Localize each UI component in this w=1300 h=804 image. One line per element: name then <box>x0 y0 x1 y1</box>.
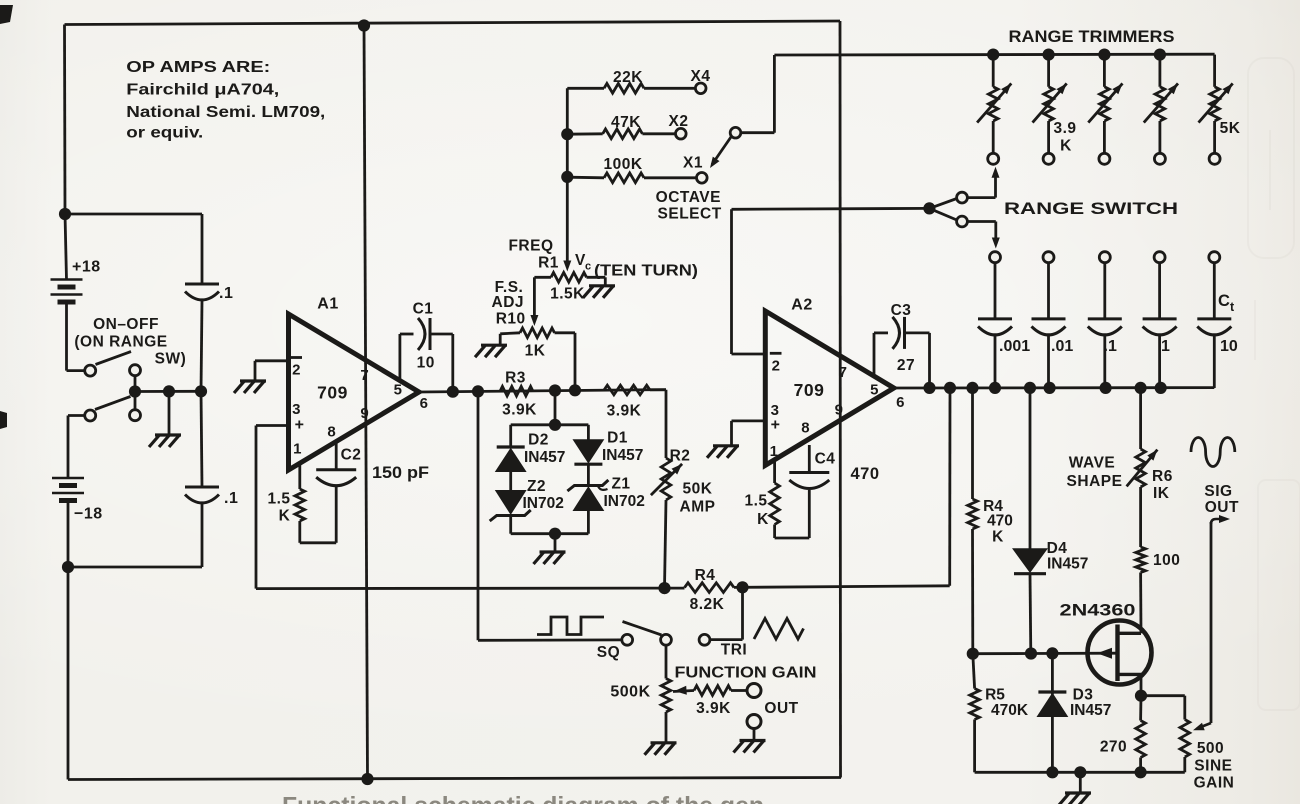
svg-text:RANGE SWITCH: RANGE SWITCH <box>1004 200 1178 218</box>
svg-text:5: 5 <box>870 382 879 399</box>
svg-text:1: 1 <box>770 443 779 460</box>
svg-text:470K: 470K <box>991 702 1029 719</box>
svg-text:(TEN TURN): (TEN TURN) <box>594 263 698 280</box>
svg-text:D4: D4 <box>1047 540 1068 557</box>
svg-text:D2: D2 <box>528 432 549 449</box>
svg-text:R10: R10 <box>496 311 526 328</box>
svg-text:1.5K: 1.5K <box>550 286 585 303</box>
svg-text:50K: 50K <box>683 481 713 498</box>
svg-text:SINE: SINE <box>1194 758 1232 775</box>
svg-text:R3: R3 <box>505 370 526 387</box>
svg-text:8: 8 <box>327 424 336 441</box>
svg-text:Z2: Z2 <box>527 478 546 495</box>
svg-text:IK: IK <box>1153 485 1170 502</box>
svg-text:National Semi. LM709,: National Semi. LM709, <box>126 104 325 121</box>
svg-text:47K: 47K <box>611 114 641 131</box>
svg-text:6: 6 <box>420 395 429 412</box>
svg-text:−18: −18 <box>74 506 103 523</box>
svg-text:K: K <box>757 511 769 528</box>
svg-text:3.9: 3.9 <box>1053 120 1076 137</box>
svg-text:FREQ: FREQ <box>508 238 553 255</box>
svg-text:t: t <box>1230 300 1235 314</box>
svg-text:100: 100 <box>1153 552 1180 569</box>
svg-text:+18: +18 <box>72 259 101 276</box>
svg-text:.1: .1 <box>1104 338 1117 355</box>
svg-text:1.5: 1.5 <box>744 493 767 510</box>
svg-text:709: 709 <box>317 383 348 403</box>
svg-text:OUT: OUT <box>764 700 798 717</box>
svg-text:5K: 5K <box>1220 120 1241 137</box>
svg-text:27: 27 <box>897 357 915 374</box>
svg-text:K: K <box>1060 138 1072 155</box>
svg-text:OCTAVE: OCTAVE <box>656 189 721 206</box>
svg-text:2: 2 <box>772 358 781 375</box>
svg-text:IN457: IN457 <box>1070 702 1111 719</box>
svg-text:270: 270 <box>1100 739 1127 756</box>
svg-text:1K: 1K <box>525 343 546 360</box>
svg-text:GAIN: GAIN <box>1194 775 1235 792</box>
svg-text:A2: A2 <box>791 297 812 314</box>
svg-text:Functional schematic diagram o: Functional schematic diagram of the gen <box>282 793 764 804</box>
svg-text:10: 10 <box>1220 338 1238 355</box>
svg-text:1.5: 1.5 <box>267 491 290 508</box>
svg-text:3.9K: 3.9K <box>696 700 731 717</box>
svg-text:c: c <box>585 261 592 273</box>
svg-text:ON–OFF: ON–OFF <box>93 316 159 333</box>
svg-text:.1: .1 <box>224 490 238 507</box>
svg-text:FUNCTION GAIN: FUNCTION GAIN <box>675 665 817 682</box>
svg-text:500K: 500K <box>610 684 650 701</box>
svg-text:(ON RANGE: (ON RANGE <box>74 334 167 351</box>
svg-text:IN702: IN702 <box>604 493 645 510</box>
svg-text:IN457: IN457 <box>602 447 643 464</box>
svg-text:IN702: IN702 <box>523 495 564 512</box>
svg-text:8.2K: 8.2K <box>690 596 725 613</box>
svg-text:R2: R2 <box>670 448 691 465</box>
svg-text:150 pF: 150 pF <box>372 464 429 482</box>
svg-text:IN457: IN457 <box>524 449 565 466</box>
svg-text:2N4360: 2N4360 <box>1060 602 1136 620</box>
svg-text:2: 2 <box>292 362 301 379</box>
svg-text:C2: C2 <box>341 447 362 464</box>
svg-text:10: 10 <box>417 355 435 372</box>
svg-text:.001: .001 <box>999 338 1030 355</box>
svg-text:X2: X2 <box>669 113 689 130</box>
svg-text:OUT: OUT <box>1205 499 1239 516</box>
svg-text:.1: .1 <box>219 285 233 302</box>
svg-text:Fairchild μA704,: Fairchild μA704, <box>126 82 279 99</box>
svg-text:1: 1 <box>293 441 302 458</box>
svg-text:7: 7 <box>839 364 848 381</box>
svg-text:22K: 22K <box>613 69 643 86</box>
svg-text:SELECT: SELECT <box>658 206 722 223</box>
svg-text:100K: 100K <box>603 156 642 173</box>
svg-text:X1: X1 <box>683 155 703 172</box>
svg-text:5: 5 <box>394 382 403 399</box>
svg-text:.01: .01 <box>1051 338 1073 355</box>
svg-text:500: 500 <box>1197 740 1224 757</box>
svg-text:3.9K: 3.9K <box>502 402 537 419</box>
svg-text:R1: R1 <box>538 255 559 272</box>
svg-text:SHAPE: SHAPE <box>1067 473 1123 490</box>
svg-text:AMP: AMP <box>680 499 716 516</box>
svg-text:3: 3 <box>292 401 301 418</box>
svg-text:R6: R6 <box>1152 468 1173 485</box>
svg-text:9: 9 <box>835 402 844 419</box>
svg-text:C: C <box>1218 292 1230 310</box>
svg-text:ADJ: ADJ <box>492 294 525 311</box>
svg-text:SW): SW) <box>155 351 187 368</box>
svg-text:7: 7 <box>360 367 369 384</box>
svg-text:K: K <box>279 508 291 525</box>
svg-text:R4: R4 <box>695 567 716 584</box>
svg-text:IN457: IN457 <box>1047 556 1088 573</box>
svg-text:TRI: TRI <box>721 642 747 659</box>
svg-text:6: 6 <box>896 394 905 411</box>
svg-text:C4: C4 <box>815 451 836 468</box>
svg-text:D3: D3 <box>1073 687 1094 704</box>
svg-text:D1: D1 <box>607 430 628 447</box>
svg-text:+: + <box>295 417 305 434</box>
svg-text:470: 470 <box>987 513 1013 530</box>
svg-text:470: 470 <box>850 465 879 483</box>
svg-text:SIG: SIG <box>1204 483 1232 500</box>
svg-text:or equiv.: or equiv. <box>126 125 203 142</box>
svg-text:1: 1 <box>1161 338 1170 355</box>
svg-text:Z1: Z1 <box>611 476 630 493</box>
svg-text:C3: C3 <box>891 302 912 319</box>
svg-text:C1: C1 <box>413 301 434 318</box>
svg-text:OP AMPS ARE:: OP AMPS ARE: <box>126 59 270 76</box>
svg-text:709: 709 <box>794 380 825 400</box>
svg-text:3.9K: 3.9K <box>607 403 642 420</box>
svg-text:X4: X4 <box>691 68 711 85</box>
svg-text:R5: R5 <box>985 687 1005 704</box>
svg-text:K: K <box>992 529 1004 546</box>
svg-text:SQ: SQ <box>597 644 620 661</box>
svg-text:RANGE TRIMMERS: RANGE TRIMMERS <box>1009 27 1175 46</box>
svg-text:WAVE: WAVE <box>1069 455 1116 472</box>
svg-text:A1: A1 <box>317 296 338 313</box>
svg-text:8: 8 <box>801 420 810 437</box>
svg-text:+: + <box>771 417 781 434</box>
svg-text:9: 9 <box>360 405 369 422</box>
